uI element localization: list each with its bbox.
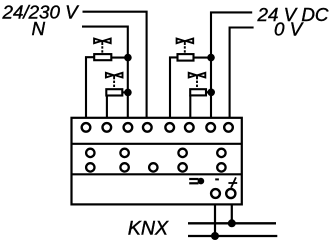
wire M1 left to terminal 1 (86, 57, 94, 118)
wire KNX minus down to lower bus line (214, 204, 216, 236)
junction dot D3 (207, 54, 215, 62)
output indicator A3 lower (178, 163, 186, 171)
output indicator A2 lower (120, 163, 128, 171)
wire 24 V DC feed: horizontal then down to terminal 7 (211, 12, 252, 117)
junction dot bus plus (228, 219, 236, 227)
terminal 8 (224, 123, 233, 132)
KNX terminal minus (211, 189, 220, 198)
output indicator A1 lower (86, 163, 94, 171)
wire M4 down to terminal 6 (189, 95, 191, 117)
KNX terminal plus (226, 189, 235, 198)
output indicator A1 upper (86, 149, 94, 157)
svg-text:0 V: 0 V (274, 19, 304, 40)
wire M2 down to terminal 2 (106, 96, 108, 118)
terminal 5 (165, 123, 174, 132)
KNX bus line upper (188, 222, 276, 224)
wire M1 right to N column (111, 57, 128, 59)
terminal 6 (185, 123, 194, 132)
terminal 4 (143, 123, 152, 132)
wire M4 right to 24VDC column (206, 91, 211, 93)
actuator M3 (rectangle) (178, 54, 194, 61)
svg-text:N: N (32, 18, 46, 39)
output indicator A4 lower (217, 163, 225, 171)
valve V4 (bowtie) (189, 73, 206, 78)
wire 24/230V feed: horizontal then down to terminal 4 (83, 12, 147, 118)
terminal 1 (82, 123, 91, 132)
svg-text:KNX: KNX (128, 218, 169, 240)
wire 0 V feed: horizontal then down to terminal 8 (230, 28, 254, 118)
KNX bus line lower (188, 235, 277, 237)
actuator M1 (rectangle) (94, 54, 111, 60)
wire M3 left to terminal 5 (170, 57, 178, 117)
actuator M2 (rectangle) (106, 89, 122, 95)
indicator center (149, 163, 157, 171)
output indicator A2 upper (120, 149, 128, 157)
valve V2 (bowtie) (106, 73, 123, 78)
junction dot D4 (207, 89, 215, 97)
programming button symbol (189, 178, 204, 185)
valve V3 (bowtie) (177, 39, 194, 44)
divider line 1 (72, 143, 242, 145)
valve V4 stem (dashed) (196, 75, 198, 79)
divider line 2 (72, 173, 242, 175)
valve V2 stem (dashed) (113, 75, 115, 79)
minus polarity label (215, 178, 219, 180)
terminal 3 (124, 123, 133, 132)
output indicator A3 upper (178, 149, 186, 157)
junction dot bus minus (211, 232, 219, 240)
terminal 7 (206, 123, 215, 132)
wire M3 right to 24VDC column (194, 57, 212, 59)
junction dot D2 (124, 89, 132, 97)
actuator M4 (rectangle) (190, 89, 206, 95)
junction dot D1 (124, 54, 132, 62)
valve V1 (bowtie) (94, 39, 111, 44)
wire N feed: horizontal then down to terminal 3 (82, 27, 128, 118)
valve V3 stem (dashed) (184, 41, 186, 45)
valve V1 stem (dashed) (101, 41, 103, 45)
terminal 2 (103, 123, 112, 132)
plus polarity label (italic) (228, 177, 237, 187)
output indicator A4 upper (217, 149, 225, 157)
wire M2 right to N column (122, 91, 128, 93)
wire KNX plus down to upper bus line (231, 204, 233, 223)
device body U1 (heating actuator) (72, 118, 242, 205)
